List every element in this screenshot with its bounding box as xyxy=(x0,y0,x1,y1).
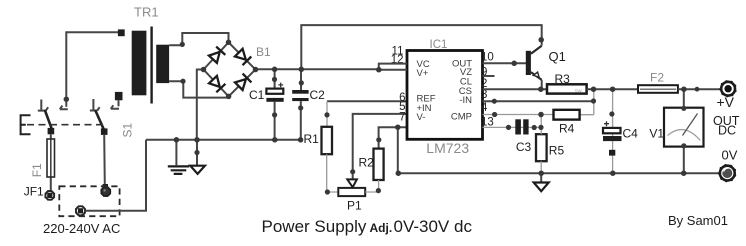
svg-text:P1: P1 xyxy=(347,199,362,213)
svg-text:13: 13 xyxy=(481,117,494,129)
svg-text:TR1: TR1 xyxy=(134,5,159,20)
svg-text:0V: 0V xyxy=(722,148,738,163)
svg-text:F1: F1 xyxy=(30,163,44,177)
svg-text:CMP: CMP xyxy=(451,112,472,123)
svg-text:R4: R4 xyxy=(559,122,575,136)
svg-text:0V-30V dc: 0V-30V dc xyxy=(394,217,473,236)
svg-text:R1: R1 xyxy=(304,132,320,146)
svg-text:R3: R3 xyxy=(555,72,571,86)
svg-text:B1: B1 xyxy=(256,45,271,59)
svg-text:C2: C2 xyxy=(310,88,326,102)
svg-text:By Sam01: By Sam01 xyxy=(668,213,728,228)
svg-text:+V: +V xyxy=(717,94,735,110)
svg-text:R5: R5 xyxy=(549,144,565,158)
svg-text:IC1: IC1 xyxy=(430,39,448,51)
svg-text:LM723: LM723 xyxy=(426,140,469,156)
svg-text:-IN: -IN xyxy=(459,95,472,106)
svg-text:Power Supply: Power Supply xyxy=(262,217,367,236)
svg-text:5W: 5W xyxy=(575,88,583,93)
svg-text:C1: C1 xyxy=(249,88,265,102)
svg-text:C4: C4 xyxy=(623,127,639,141)
svg-text:F2: F2 xyxy=(650,70,664,84)
svg-text:3: 3 xyxy=(481,89,487,101)
svg-text:Adj.: Adj. xyxy=(370,221,393,235)
svg-text:Q1: Q1 xyxy=(549,49,566,64)
svg-text:7: 7 xyxy=(399,112,405,124)
svg-text:V-: V- xyxy=(417,112,426,123)
svg-text:JF1: JF1 xyxy=(24,184,44,198)
svg-text:V1: V1 xyxy=(649,127,664,141)
svg-text:10: 10 xyxy=(481,51,494,63)
svg-text:4: 4 xyxy=(481,102,488,114)
svg-text:220-240V AC: 220-240V AC xyxy=(43,221,120,236)
svg-text:S1: S1 xyxy=(121,122,135,137)
svg-text:C3: C3 xyxy=(516,140,532,154)
svg-text:DC: DC xyxy=(718,124,736,138)
svg-text:R2: R2 xyxy=(359,156,375,170)
svg-text:V+: V+ xyxy=(417,68,429,79)
